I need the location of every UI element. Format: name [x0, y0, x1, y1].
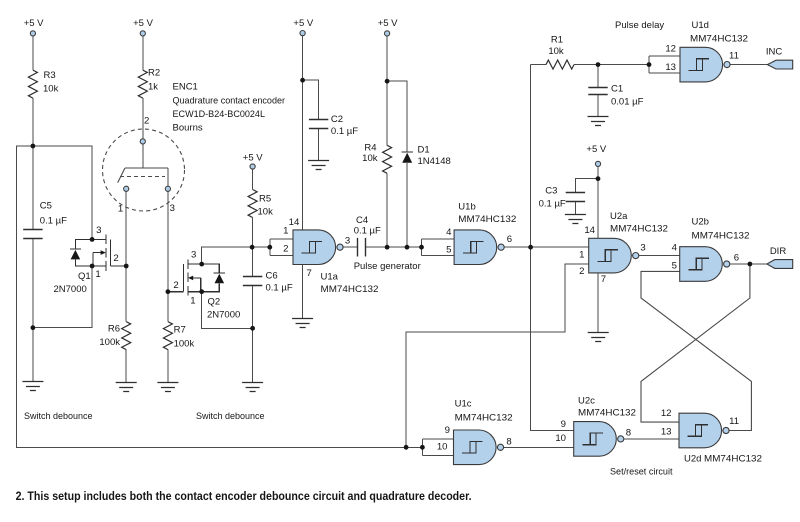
wire U1c output to U2c pin 10 [502, 446, 574, 448]
wire R6 to ground [125, 350, 127, 383]
wire +5V to R3 [32, 36, 34, 70]
svg-text:3: 3 [191, 249, 196, 260]
wire R4 to pulse node [386, 173, 388, 247]
svg-text:1: 1 [190, 295, 195, 306]
op-amp U1a NAND gate [293, 230, 343, 265]
svg-text:1: 1 [579, 250, 584, 261]
diode D1 [401, 152, 413, 163]
wire node A to Q1 drain [33, 146, 92, 239]
wire U1b output to R1 and U2c pin 9 [531, 65, 574, 431]
svg-text:5: 5 [446, 244, 451, 255]
wire +5V to C2 branch and U1a pin 14 [303, 36, 319, 230]
wire U1d output to INC [729, 64, 768, 66]
wire U2a output to U2b pin 4 [637, 255, 679, 257]
power terminal +5V above R2 [140, 31, 145, 36]
wire +5V to R4 and D1 [387, 36, 407, 152]
wire U1c input tie bar [422, 439, 453, 456]
ground below R6 [116, 383, 137, 392]
svg-text:1N4148: 1N4148 [418, 156, 451, 167]
svg-text:7: 7 [307, 268, 312, 279]
svg-text:Q2: Q2 [208, 297, 221, 308]
svg-text:R1: R1 [551, 35, 563, 46]
svg-text:11: 11 [729, 416, 739, 427]
svg-text:R2: R2 [148, 68, 160, 79]
junction Q2 drain [199, 262, 204, 267]
transistor Q2 [168, 259, 225, 295]
svg-text:U1c: U1c [455, 399, 472, 410]
svg-text:ENC1: ENC1 [173, 82, 198, 93]
svg-text:+5 V: +5 V [378, 18, 398, 29]
resistor R2 [138, 70, 147, 98]
svg-text:C1: C1 [611, 84, 623, 95]
junction R1/C1 [596, 62, 601, 67]
wire Q2 drain to U1a inputs [202, 247, 270, 264]
svg-text:Pulse delay: Pulse delay [615, 20, 664, 31]
output flag DIR [767, 260, 793, 269]
wire +5V to R2 [142, 36, 144, 70]
junction C3 branch [596, 176, 601, 181]
svg-text:6: 6 [507, 234, 512, 245]
svg-text:0.1 µF: 0.1 µF [354, 226, 381, 237]
wire encoder pin 3 to R7 [167, 191, 169, 321]
svg-text:Bourns: Bourns [173, 123, 203, 134]
junction Q2 gate tap [166, 289, 171, 294]
junction U1c tie [420, 445, 425, 450]
svg-text:Set/reset circuit: Set/reset circuit [610, 467, 673, 478]
power terminal +5V above R4 [385, 31, 390, 36]
svg-text:C2: C2 [331, 114, 343, 125]
ground below C1 [588, 117, 609, 126]
svg-text:U1d: U1d [692, 20, 709, 31]
wire R3 to node A [32, 98, 34, 146]
power terminal +5V above R5 [250, 164, 255, 169]
svg-text:13: 13 [661, 426, 672, 437]
svg-text:MM74HC132: MM74HC132 [690, 33, 748, 44]
output flag INC [767, 60, 792, 69]
junction C5 bottom [31, 325, 36, 330]
power terminal +5V above R3 [30, 31, 35, 36]
svg-text:R7: R7 [174, 325, 186, 336]
wire U1a output to C4 [342, 246, 358, 248]
wire U2b output cross to U2d pin 12 [641, 264, 750, 422]
svg-text:100k: 100k [99, 337, 120, 348]
svg-text:7: 7 [601, 274, 606, 285]
power terminal +5V above C2 [300, 30, 305, 35]
ground U1a pin 7 [292, 319, 313, 328]
svg-text:4: 4 [446, 227, 452, 238]
wire U2a pin 2 to U1c input node [406, 264, 589, 447]
op-amp U1b NAND gate [454, 230, 504, 265]
wire D1 to pulse node [406, 163, 408, 247]
capacitor C2 [309, 120, 328, 129]
svg-text:2: 2 [283, 243, 288, 254]
svg-text:MM74HC132: MM74HC132 [455, 413, 513, 424]
wire +5V to R5 [252, 169, 254, 189]
svg-text:U2a: U2a [610, 211, 628, 222]
svg-text:13: 13 [665, 62, 676, 73]
junction C6 bottom [250, 326, 255, 331]
junction C2 branch [300, 78, 305, 83]
svg-text:U1a: U1a [321, 271, 339, 282]
svg-text:MM74HC132: MM74HC132 [321, 284, 379, 295]
svg-text:3: 3 [170, 203, 175, 214]
junction U1d tie [647, 62, 652, 67]
svg-text:12: 12 [665, 44, 676, 55]
resistor R7 [163, 322, 172, 350]
wire R1 corner stub [531, 64, 546, 66]
wire C6 to ground [252, 286, 254, 383]
svg-text:INC: INC [766, 47, 783, 58]
svg-text:0.1 µF: 0.1 µF [539, 198, 566, 209]
svg-text:14: 14 [289, 217, 300, 228]
junction node A (R3/rail/Q1) [31, 144, 36, 149]
svg-text:Q1: Q1 [78, 271, 91, 282]
capacitor C1 [588, 88, 607, 95]
svg-text:DIR: DIR [770, 246, 787, 257]
svg-text:10k: 10k [43, 84, 59, 95]
junction Q1 drain [90, 237, 95, 242]
wire U2d output cross to U2b pin 5 [641, 271, 751, 430]
svg-text:2: 2 [144, 115, 149, 126]
svg-text:0.01 µF: 0.01 µF [611, 96, 644, 107]
svg-text:10k: 10k [258, 207, 274, 218]
svg-text:R5: R5 [259, 193, 271, 204]
svg-text:MM74HC132: MM74HC132 [610, 224, 668, 235]
junction Q2 source [199, 289, 204, 294]
svg-text:R4: R4 [364, 143, 376, 154]
encoder ENC1 [103, 129, 185, 211]
svg-text:C5: C5 [40, 201, 52, 212]
ground below C6 [242, 383, 263, 392]
wire C5 to ground [32, 238, 34, 381]
svg-text:Pulse generator: Pulse generator [354, 261, 421, 272]
svg-text:9: 9 [561, 419, 566, 430]
svg-text:11: 11 [729, 51, 739, 62]
power terminal +5V above C3 [595, 161, 600, 166]
svg-text:C3: C3 [545, 186, 557, 197]
svg-text:+5 V: +5 V [243, 153, 263, 164]
wire Q2 source to C6 bottom node [202, 292, 253, 329]
svg-text:0.1 µF: 0.1 µF [331, 126, 358, 137]
svg-text:100k: 100k [174, 338, 195, 349]
svg-text:2: 2 [173, 280, 178, 291]
transistor Q1 [70, 235, 126, 271]
svg-text:1k: 1k [148, 82, 158, 93]
junction U1b output cross [528, 245, 533, 250]
op-amp U2d NAND gate [679, 413, 729, 448]
wire C1 to ground [597, 94, 599, 116]
svg-text:4: 4 [672, 243, 678, 254]
svg-text:6: 6 [734, 252, 739, 263]
svg-text:+5 V: +5 V [586, 144, 606, 155]
wire Q1 source to C5 bottom node [33, 266, 92, 328]
svg-text:+5 V: +5 V [293, 18, 313, 29]
capacitor C4 [358, 238, 366, 257]
svg-text:8: 8 [506, 437, 511, 448]
svg-text:2: 2 [579, 266, 584, 277]
svg-text:R6: R6 [108, 324, 120, 335]
resistor R3 [28, 70, 37, 98]
wire R1 node to C1 [597, 65, 599, 88]
ground below R7 [157, 383, 178, 392]
svg-text:5: 5 [672, 260, 677, 271]
svg-text:+5 V: +5 V [24, 18, 44, 29]
wire C2 to ground [318, 129, 320, 161]
svg-text:1: 1 [118, 204, 123, 215]
svg-text:9: 9 [445, 425, 450, 436]
wire U2c output to U2d pin 13 [622, 438, 679, 440]
svg-text:D1: D1 [418, 144, 430, 155]
wire C3 to ground [574, 202, 576, 215]
capacitor C3 [566, 193, 585, 202]
capacitor C6 [243, 277, 262, 286]
wire U1a input tie bar [270, 239, 293, 256]
svg-text:MM74HC132: MM74HC132 [704, 454, 762, 465]
op-amp U2a NAND gate [589, 238, 639, 273]
svg-text:2. This setup includes both th: 2. This setup includes both the contact … [16, 491, 472, 503]
junction Q1 gate tap [124, 264, 129, 269]
wire encoder pin 1 to R6 [125, 191, 127, 321]
ground below C3 [565, 215, 586, 224]
wire U1a pin 7 to ground [302, 265, 304, 319]
svg-text:Switch debounce: Switch debounce [196, 411, 265, 422]
wire node A to C5 [32, 146, 34, 229]
wire node A left rail to U1c inputs [17, 146, 423, 447]
wire R2 to encoder pin 2 [142, 98, 144, 139]
svg-text:10: 10 [437, 442, 448, 453]
junction Q1 source [90, 264, 95, 269]
svg-text:U2d: U2d [684, 454, 701, 465]
resistor R1 [546, 60, 574, 69]
junction DIR node [748, 262, 753, 267]
svg-text:14: 14 [584, 225, 595, 236]
svg-text:Switch debounce: Switch debounce [24, 411, 93, 422]
svg-text:10k: 10k [362, 153, 378, 164]
svg-text:2N7000: 2N7000 [54, 284, 87, 295]
svg-text:8: 8 [626, 428, 631, 439]
svg-text:MM74HC132: MM74HC132 [458, 214, 516, 225]
svg-text:1: 1 [95, 269, 100, 280]
wire R1 to U1d inputs [574, 64, 649, 66]
junction U1b tie [419, 245, 424, 250]
svg-text:MM74HC132: MM74HC132 [692, 231, 750, 242]
svg-text:U2c: U2c [578, 396, 595, 407]
junction U1a tie [267, 245, 272, 250]
svg-text:Quadrature contact encoder: Quadrature contact encoder [173, 96, 286, 107]
svg-text:10k: 10k [548, 46, 564, 57]
op-amp U2b NAND gate [680, 247, 730, 282]
junction R4/D1 top [385, 79, 390, 84]
svg-text:2: 2 [113, 253, 118, 264]
svg-text:C6: C6 [266, 271, 278, 282]
svg-text:10: 10 [555, 433, 566, 444]
svg-text:12: 12 [661, 408, 672, 419]
resistor R5 [248, 190, 257, 218]
resistor R6 [122, 322, 131, 350]
wire U1b input tie bar [422, 239, 455, 256]
wire C4 to U1b inputs [365, 246, 421, 248]
svg-text:U1b: U1b [458, 202, 475, 213]
junction D1 bottom [405, 245, 410, 250]
svg-text:3: 3 [640, 242, 645, 253]
svg-text:U2b: U2b [692, 217, 709, 228]
ground below C5 [22, 382, 43, 391]
op-amp U2c NAND gate [574, 422, 624, 457]
svg-text:3: 3 [96, 225, 101, 236]
svg-text:2N7000: 2N7000 [207, 310, 240, 321]
wire U2b output to DIR [728, 263, 767, 265]
svg-text:C4: C4 [356, 215, 368, 226]
wire +5V to C3 branch and U2a pin 14 [575, 167, 598, 239]
wire R7 to ground [167, 350, 169, 383]
wire U2a pin 7 to ground [597, 273, 599, 332]
svg-text:0.1 µF: 0.1 µF [40, 216, 67, 227]
svg-text:MM74HC132: MM74HC132 [578, 407, 636, 418]
op-amp U1c NAND gate [454, 430, 504, 465]
wire R5 to node B [252, 218, 254, 277]
svg-text:0.1 µF: 0.1 µF [266, 282, 293, 293]
wire U1b output to U2a pin 1 [503, 246, 589, 248]
op-amp U1d NAND gate [680, 47, 730, 82]
ground U2a pin 7 [588, 333, 609, 342]
junction node B (R5/C6/U1a) [250, 245, 255, 250]
wire U1d input tie bar [649, 56, 680, 73]
svg-text:3: 3 [345, 235, 350, 246]
resistor R4 [383, 145, 392, 173]
svg-text:R3: R3 [44, 70, 56, 81]
capacitor C5 [23, 230, 42, 239]
svg-text:ECW1D-B24-BC0024L: ECW1D-B24-BC0024L [173, 109, 266, 120]
svg-text:+5 V: +5 V [133, 18, 153, 29]
ground below C2 [308, 161, 329, 170]
junction U1c input riser [404, 445, 409, 450]
junction R4 bottom [385, 245, 390, 250]
